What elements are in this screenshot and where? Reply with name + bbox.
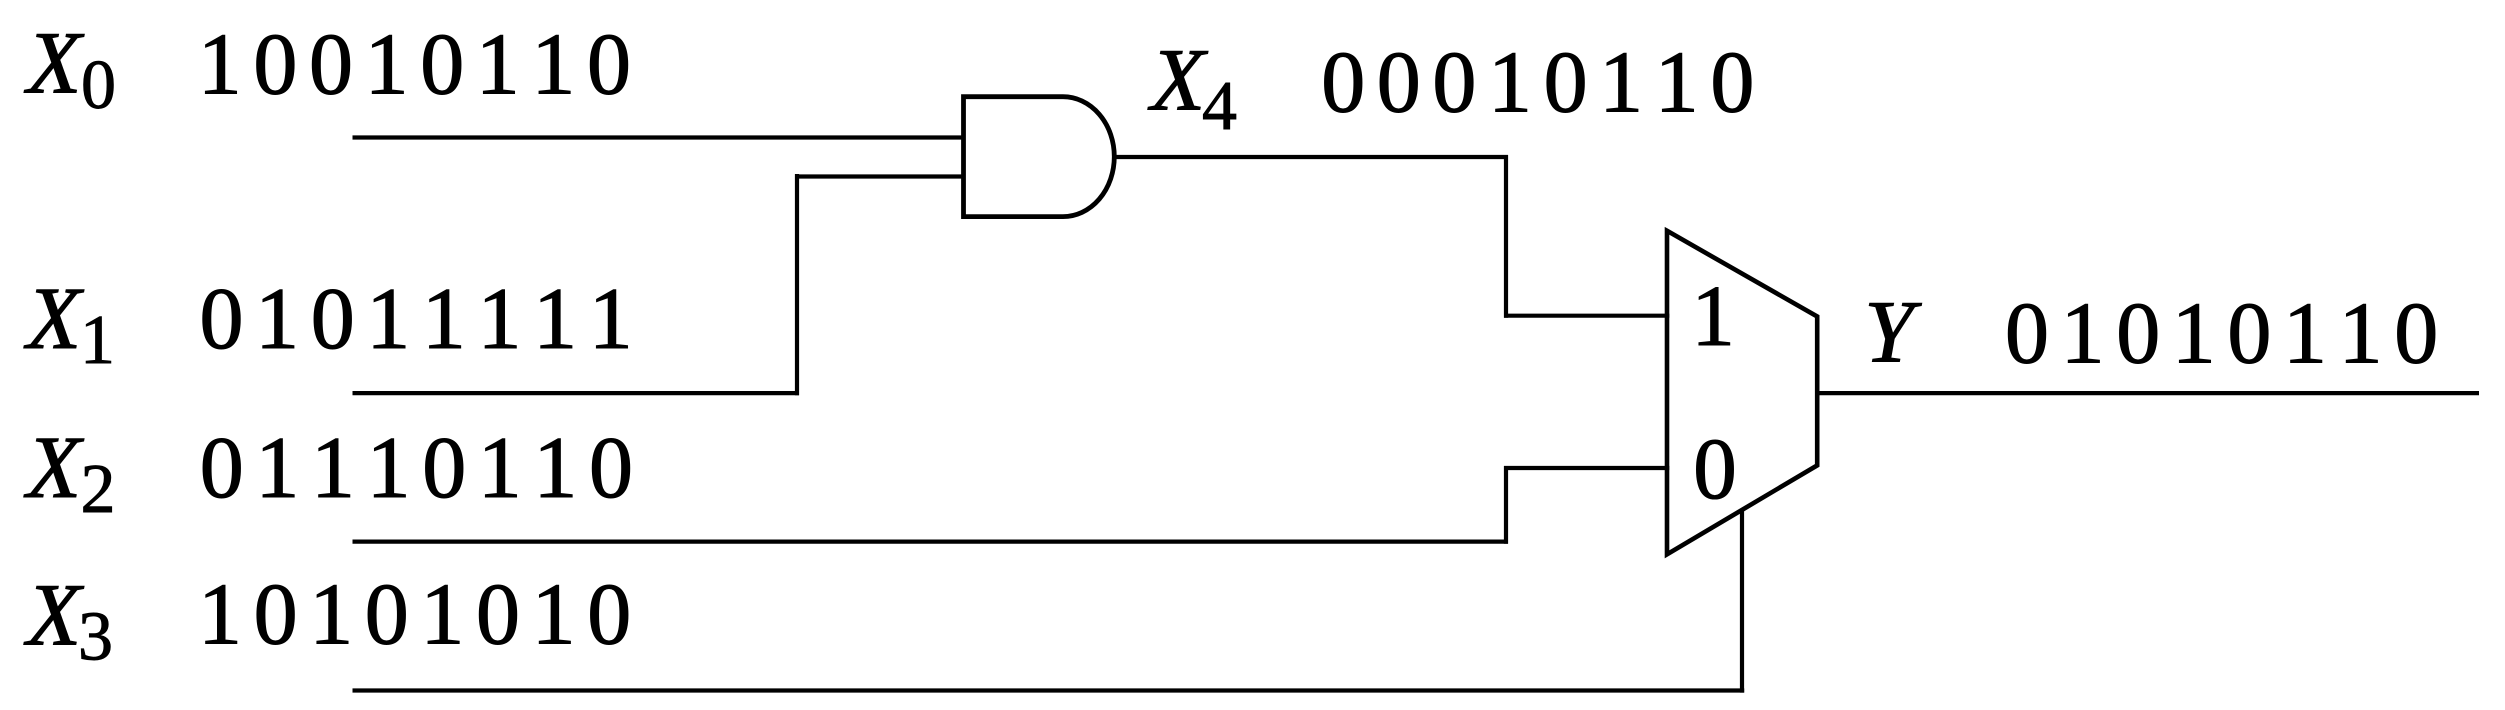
svg-text:X: X — [1148, 31, 1209, 129]
wire Y output — [1817, 391, 2479, 395]
svg-text:10010110: 10010110 — [198, 16, 643, 113]
svg-text:4: 4 — [1202, 68, 1237, 145]
svg-text:X: X — [24, 419, 85, 517]
wire X4: AND output horizontal — [1114, 155, 1508, 159]
svg-text:3: 3 — [78, 599, 113, 676]
wire X0 to AND input A — [353, 135, 966, 139]
wire X1 horizontal run — [353, 391, 800, 395]
svg-text:00010110: 00010110 — [1321, 34, 1766, 131]
wire X2 vertical rise — [1504, 466, 1508, 544]
mux U2 trapezoid — [1667, 231, 1817, 555]
svg-text:X: X — [24, 270, 85, 368]
wire X1 to AND input B — [795, 174, 965, 178]
svg-text:01010110: 01010110 — [2005, 286, 2450, 383]
node X3 label — [24, 567, 113, 676]
node X4 label — [1148, 31, 1237, 145]
wire X4 vertical drop — [1504, 155, 1508, 318]
wire X3 select rise to MUX — [1740, 511, 1744, 693]
node X1 label — [24, 270, 115, 379]
wire X1 vertical rise — [795, 174, 799, 395]
wire X2 to MUX input 0 — [1504, 466, 1669, 470]
svg-text:0: 0 — [1693, 420, 1737, 517]
wire X2 horizontal run — [353, 539, 1509, 543]
wire X3 horizontal run — [353, 688, 1745, 692]
svg-text:10101010: 10101010 — [198, 567, 643, 664]
svg-text:1: 1 — [80, 302, 115, 379]
svg-text:0: 0 — [81, 47, 116, 124]
svg-text:1: 1 — [1691, 267, 1735, 364]
svg-text:X: X — [24, 14, 85, 112]
wire X4 to MUX input 1 — [1504, 314, 1669, 318]
svg-text:X: X — [24, 567, 85, 665]
svg-text:01110110: 01110110 — [200, 420, 645, 517]
and-gate U1 — [964, 97, 1115, 217]
svg-text:2: 2 — [81, 451, 116, 528]
svg-text:01011111: 01011111 — [200, 271, 645, 368]
svg-text:Y: Y — [1864, 283, 1922, 381]
node X2 label — [24, 419, 116, 528]
node X0 label — [24, 14, 116, 124]
